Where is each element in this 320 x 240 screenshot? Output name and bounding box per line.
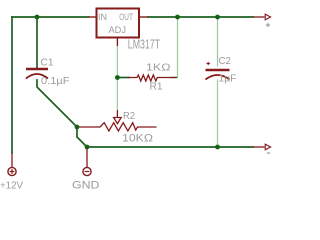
svg-text:1KΩ: 1KΩ [146, 62, 171, 74]
svg-text:R2: R2 [123, 110, 135, 122]
svg-text:C2: C2 [219, 55, 232, 67]
svg-text:+12V: +12V [0, 180, 23, 192]
svg-text:R1: R1 [150, 81, 163, 93]
svg-text:OUT: OUT [119, 12, 133, 23]
svg-text:ADJ: ADJ [109, 25, 127, 36]
svg-text:0.1µF: 0.1µF [41, 75, 70, 87]
svg-text:1µF: 1µF [218, 73, 236, 85]
svg-text:GND: GND [72, 180, 100, 192]
svg-text:IN: IN [98, 12, 107, 23]
svg-text:C1: C1 [41, 57, 54, 69]
svg-text:LM317T: LM317T [128, 37, 161, 51]
svg-text:10KΩ: 10KΩ [122, 133, 153, 145]
